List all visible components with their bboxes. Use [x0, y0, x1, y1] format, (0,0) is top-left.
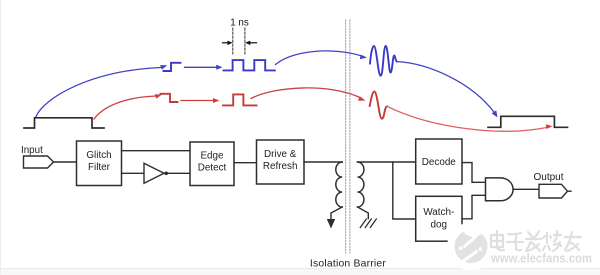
ground arrow [327, 219, 335, 229]
blue arc: pulse train to burst [276, 51, 363, 65]
blue arrow between glyph and pulse train [185, 66, 219, 68]
svg-text:dog: dog [431, 220, 447, 231]
page bottom strip [0, 268, 600, 275]
1 ns dimension dashed line right [244, 28, 246, 54]
chassis ground [360, 219, 376, 228]
glitch filter box [77, 141, 122, 186]
red arrow between glyph and pulse [181, 100, 215, 102]
svg-text:Isolation Barrier: Isolation Barrier [310, 259, 387, 270]
red arc: input falling edge to falling-edge glyph [94, 96, 156, 119]
output waveform pulse [488, 116, 568, 127]
decode box [416, 139, 462, 184]
wire: junction down to watchdog [393, 162, 416, 219]
logo node 2 [478, 247, 483, 252]
wire: right coil to decode [358, 161, 416, 163]
wire: decode output to gate [462, 163, 486, 183]
transformer right coil [358, 162, 364, 207]
watermark logo halo [447, 223, 495, 271]
logo trace 1 [462, 236, 477, 249]
svg-text:Input: Input [21, 145, 43, 156]
logo top notch [462, 225, 486, 237]
1 ns right arrow [249, 42, 257, 44]
svg-text:1 ns: 1 ns [230, 18, 249, 29]
watermark CJK strokes shao [543, 231, 561, 251]
svg-text:Detect: Detect [198, 163, 227, 174]
logo node 1 [458, 246, 463, 251]
junction dot [164, 172, 168, 176]
svg-text:www.elecfans.com: www.elecfans.com [490, 251, 592, 266]
wire: glitch filter top output to edge detect [122, 150, 191, 152]
svg-text:Filter: Filter [88, 162, 111, 173]
page left border [0, 0, 2, 275]
AND gate [486, 178, 514, 201]
red arc: burst to output falling edge [387, 106, 549, 131]
svg-text:Decode: Decode [422, 157, 457, 168]
watermark CJK strokes you [565, 232, 581, 251]
watermark logo circle [455, 230, 488, 263]
wire: drive refresh to transformer [304, 161, 342, 163]
svg-text:Refresh: Refresh [263, 161, 298, 172]
isolation barrier dashed line right [349, 20, 351, 253]
right coil lead [358, 207, 369, 219]
watermark CJK strokes fa [526, 231, 541, 251]
watermark CJK strokes zi [507, 233, 523, 250]
blue oscillation burst [370, 46, 397, 76]
svg-text:Edge: Edge [200, 151, 224, 162]
blue double pulse train [224, 60, 275, 70]
svg-text:Watch-: Watch- [423, 207, 454, 218]
wire: watchdog output to gate [462, 195, 486, 219]
buffer triangle [144, 163, 164, 183]
isolation barrier dashed line left [345, 20, 347, 253]
transformer left coil [336, 162, 342, 207]
wire: gate to output tag [513, 188, 539, 190]
red falling-edge glyph [161, 94, 178, 102]
red arc: pulse to burst [251, 88, 361, 99]
left coil lead [331, 207, 342, 220]
blue arc: burst to output pulse [397, 62, 495, 113]
edge detect box [190, 142, 234, 186]
wire: buffer to edge detect [164, 172, 190, 174]
svg-text:Output: Output [534, 172, 564, 183]
watchdog box [416, 196, 462, 241]
wire: glitch filter bottom output to buffer [122, 172, 145, 174]
1 ns dimension dashed line left [232, 28, 234, 54]
input waveform pulse [24, 118, 104, 128]
blue rising-edge glyph [164, 63, 181, 71]
input tag [24, 156, 54, 168]
wire: input tag to glitch filter [54, 161, 77, 163]
logo trace 2 [461, 250, 480, 263]
red spike burst [370, 92, 387, 119]
svg-text:Drive &: Drive & [264, 149, 297, 160]
watermark CJK strokes dian [491, 231, 581, 251]
red single pulse [223, 94, 257, 105]
blue arc: input rising edge to edge glyph [36, 68, 161, 117]
drive & refresh box [257, 140, 305, 184]
output tag [539, 184, 568, 198]
1 ns left arrow [223, 41, 257, 45]
wire: edge detect to drive refresh [234, 162, 257, 164]
svg-text:Glitch: Glitch [86, 150, 111, 161]
